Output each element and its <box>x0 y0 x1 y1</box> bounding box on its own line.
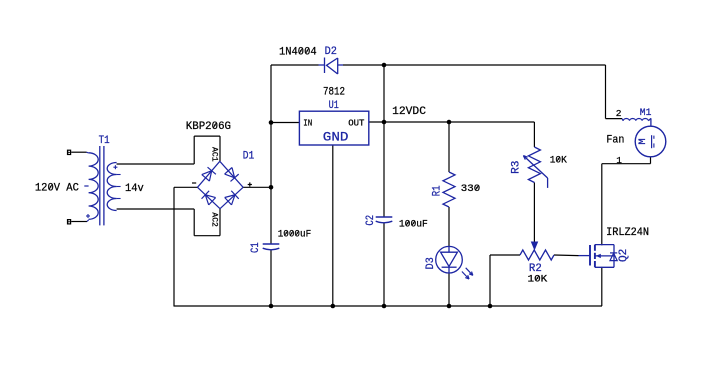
svg-text:D3: D3 <box>425 257 437 269</box>
svg-text:1N4004: 1N4004 <box>279 46 317 58</box>
svg-text:T1: T1 <box>99 135 110 147</box>
svg-text:1: 1 <box>616 155 622 166</box>
svg-text:120V AC: 120V AC <box>35 182 79 194</box>
svg-text:10K: 10K <box>550 156 568 167</box>
svg-text:GND: GND <box>323 129 349 144</box>
svg-text:7812: 7812 <box>323 86 345 98</box>
svg-text:R2: R2 <box>529 263 542 275</box>
svg-text:Q2: Q2 <box>618 249 630 262</box>
svg-text:330: 330 <box>461 184 480 195</box>
svg-text:C1: C1 <box>250 242 262 253</box>
svg-text:R3: R3 <box>510 161 522 174</box>
svg-text:U1: U1 <box>329 100 340 112</box>
svg-text:IN: IN <box>303 118 312 129</box>
svg-text:R1: R1 <box>431 185 443 196</box>
svg-text:M: M <box>637 138 649 144</box>
svg-text:D1: D1 <box>243 150 255 162</box>
svg-text:D2: D2 <box>325 46 337 58</box>
svg-text:KBP206G: KBP206G <box>186 121 231 133</box>
svg-text:M1: M1 <box>640 107 652 119</box>
svg-text:Fan: Fan <box>606 135 624 147</box>
svg-text:AC2: AC2 <box>210 212 219 227</box>
svg-text:2: 2 <box>616 108 622 119</box>
svg-text:C2: C2 <box>365 215 377 226</box>
svg-text:OUT: OUT <box>348 118 364 129</box>
svg-text:12VDC: 12VDC <box>392 106 426 118</box>
svg-text:1000uF: 1000uF <box>278 230 312 241</box>
svg-text:14v: 14v <box>125 183 144 195</box>
svg-text:100uF: 100uF <box>399 220 428 231</box>
svg-text:AC1: AC1 <box>210 147 219 162</box>
svg-text:IRLZ24N: IRLZ24N <box>606 227 649 239</box>
svg-text:10K: 10K <box>528 274 549 285</box>
